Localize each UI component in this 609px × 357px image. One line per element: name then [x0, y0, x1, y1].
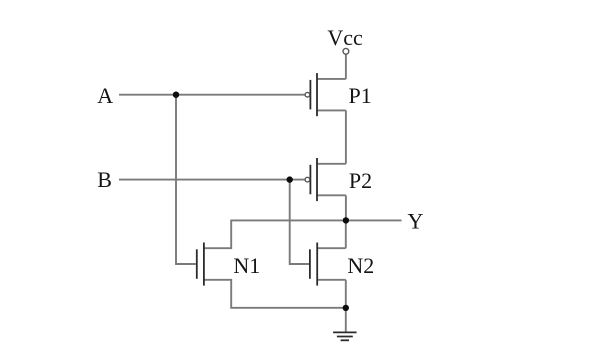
- svg-text:P1: P1: [348, 83, 371, 108]
- svg-text:B: B: [97, 167, 112, 192]
- svg-text:Vcc: Vcc: [327, 25, 363, 50]
- svg-text:Y: Y: [408, 208, 424, 233]
- svg-text:N1: N1: [233, 253, 260, 278]
- svg-text:N2: N2: [347, 253, 374, 278]
- svg-text:P2: P2: [349, 168, 372, 193]
- svg-text:A: A: [97, 83, 113, 108]
